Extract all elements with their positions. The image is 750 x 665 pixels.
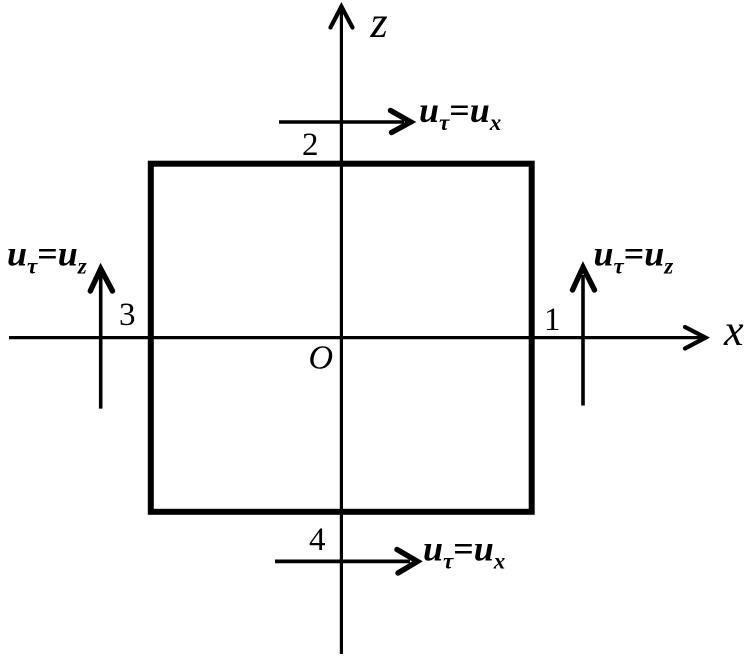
z-axis arrowhead bbox=[331, 7, 353, 28]
square domain outline bbox=[151, 164, 532, 512]
svg-text:uτ=uz: uτ=uz bbox=[594, 234, 674, 279]
svg-text:O: O bbox=[309, 340, 334, 377]
svg-text:z: z bbox=[370, 0, 388, 47]
svg-text:4: 4 bbox=[309, 522, 326, 558]
svg-text:uτ=uz: uτ=uz bbox=[7, 234, 87, 279]
right boundary arrow bbox=[581, 275, 585, 406]
top boundary arrow bbox=[279, 120, 404, 124]
svg-text:1: 1 bbox=[544, 302, 561, 338]
x-axis line bbox=[9, 336, 702, 339]
svg-text:uτ=ux: uτ=ux bbox=[419, 90, 501, 135]
svg-text:2: 2 bbox=[302, 127, 319, 163]
svg-text:3: 3 bbox=[119, 297, 136, 333]
x-axis arrowhead bbox=[685, 327, 706, 349]
left boundary arrow bbox=[99, 275, 103, 409]
z-axis line bbox=[340, 9, 343, 654]
svg-text:x: x bbox=[723, 306, 744, 355]
bottom boundary arrow bbox=[275, 560, 410, 564]
svg-text:uτ=ux: uτ=ux bbox=[423, 529, 505, 574]
